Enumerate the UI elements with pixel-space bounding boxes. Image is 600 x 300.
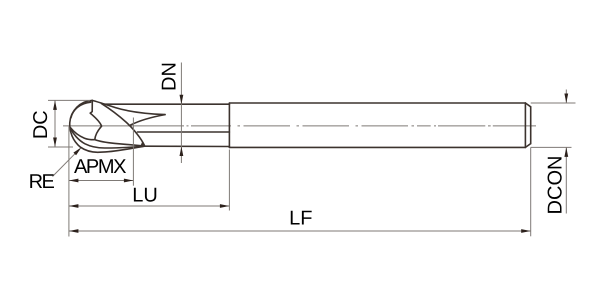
svg-text:APMX: APMX xyxy=(74,156,126,178)
DN dimension line xyxy=(180,63,182,164)
inner gash arc from tip xyxy=(71,129,145,149)
shank step xyxy=(228,103,230,147)
shank end face xyxy=(530,107,532,144)
LU dimension line xyxy=(69,205,230,207)
centerline xyxy=(63,125,536,127)
LF right extension xyxy=(530,147,532,236)
DCON top arrow xyxy=(564,94,568,104)
svg-text:LF: LF xyxy=(289,208,312,230)
DC bottom arrow xyxy=(53,138,57,148)
DCON bottom extension xyxy=(531,146,572,148)
ball margin inner arc xyxy=(71,102,91,118)
ball nose outer arc xyxy=(70,100,145,152)
small radiating curve at tip xyxy=(70,127,95,139)
LU right extension xyxy=(228,150,230,211)
shank chamfer line xyxy=(524,103,526,147)
DCON bottom arrow xyxy=(564,147,568,157)
LU right arrow xyxy=(220,204,230,208)
svg-text:DC: DC xyxy=(30,110,52,139)
DC top extension xyxy=(48,99,90,101)
LF dimension line xyxy=(69,230,531,232)
shank top edge xyxy=(229,102,525,104)
arrowheads xyxy=(53,94,568,233)
DN top arrow xyxy=(180,95,184,105)
body top edge xyxy=(104,103,230,105)
DC top arrow xyxy=(53,100,57,110)
left extension line (APMX/LU/LF) xyxy=(68,127,70,237)
APMX dimension line xyxy=(69,180,133,182)
LF right arrow xyxy=(521,229,531,233)
RE leader line xyxy=(53,153,76,176)
APMX right extension xyxy=(132,118,134,186)
DC bottom extension xyxy=(48,146,73,148)
thin dimension/extension lines xyxy=(48,63,576,237)
shank top chamfer xyxy=(525,103,530,107)
steep lower flute curve xyxy=(102,104,145,146)
svg-text:RE: RE xyxy=(29,171,55,193)
svg-text:LU: LU xyxy=(132,185,158,207)
APMX right arrow xyxy=(124,179,133,183)
LF left arrow xyxy=(69,229,79,233)
shank bottom edge xyxy=(229,146,525,148)
LU left arrow xyxy=(69,204,79,208)
DCON top extension xyxy=(531,102,576,104)
neck flute line xyxy=(138,131,230,133)
DCON top dimension line xyxy=(565,90,567,104)
svg-text:DCON: DCON xyxy=(545,156,567,215)
upper flute leaf top curve xyxy=(92,100,165,114)
DC dimension line xyxy=(54,100,56,147)
flute gash S-curve xyxy=(90,100,144,146)
shank bottom chamfer xyxy=(525,144,530,148)
svg-text:DN: DN xyxy=(159,62,181,91)
DN bottom arrow xyxy=(180,147,184,157)
DCON bottom dimension line xyxy=(565,147,567,213)
RE leader arrow xyxy=(73,147,81,155)
flute runout wedge xyxy=(141,141,145,145)
body bottom edge xyxy=(145,145,230,147)
upper flute leaf bottom curve xyxy=(131,115,165,125)
APMX left arrow xyxy=(69,179,79,183)
